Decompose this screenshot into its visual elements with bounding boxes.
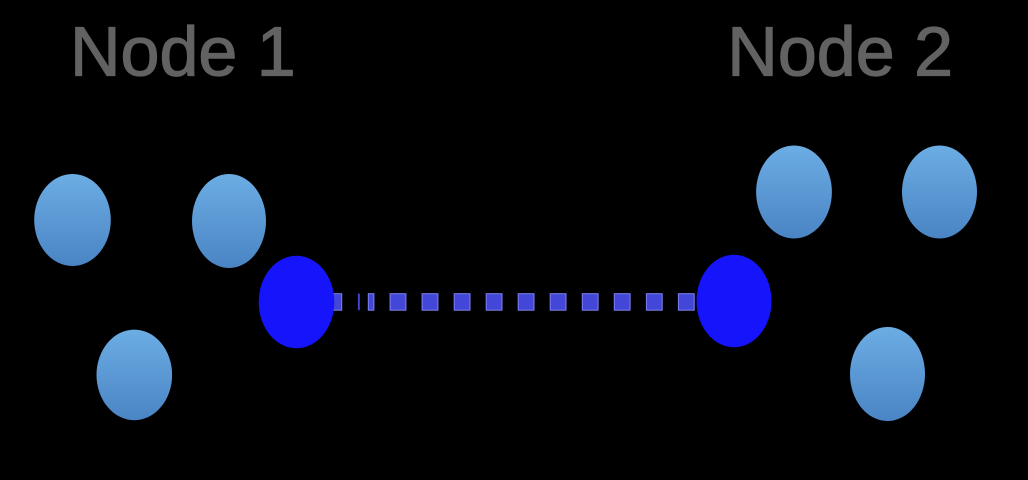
node A satellite 1 xyxy=(34,174,111,266)
node A satellite 3 xyxy=(97,330,173,421)
node A hub xyxy=(259,256,335,349)
node B hub xyxy=(697,255,772,348)
svg-text:Node 1: Node 1 xyxy=(70,13,296,91)
wire: dashed link between Node 1 hub and Node 2 hub xyxy=(326,294,694,311)
node B satellite 2 xyxy=(902,146,977,239)
node B satellite 3 xyxy=(850,327,925,421)
node A satellite 2 xyxy=(192,174,266,268)
svg-text:Node 2: Node 2 xyxy=(727,13,953,91)
node B satellite 1 xyxy=(756,146,832,239)
